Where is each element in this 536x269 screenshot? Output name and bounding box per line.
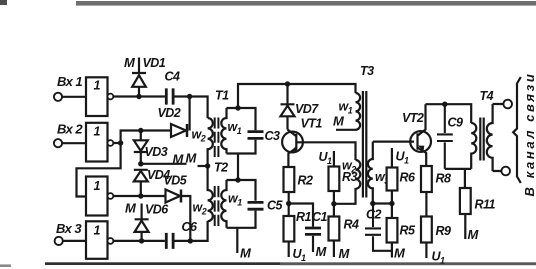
svg-text:Вх 3: Вх 3 (56, 221, 82, 236)
wire Вх3 to gate DD4 (63, 240, 86, 242)
wire M stub from VD3/VD4 node (141, 163, 187, 165)
svg-text:Вх 1: Вх 1 (57, 74, 82, 89)
wire VD5 to C6 node (182, 196, 191, 241)
core T4 (480, 118, 483, 161)
resistor R11 (460, 188, 471, 214)
wire T2 tank bottom rail (227, 211, 256, 228)
gate DD2 (1) (86, 123, 108, 162)
transformer T3 winding w1 (336, 93, 360, 130)
wire M stub at T2 w2 top (198, 165, 208, 167)
wire main top rail (238, 84, 356, 108)
wire T1 tank bottom rail (227, 140, 256, 154)
svg-text:R4: R4 (344, 218, 359, 232)
svg-text:С1: С1 (312, 210, 327, 224)
svg-text:VD3: VD3 (145, 145, 168, 159)
core T2 (215, 186, 219, 226)
gate DD1 output bubble (108, 94, 114, 100)
transistor VT1 (282, 132, 303, 153)
svg-text:Вх 2: Вх 2 (57, 122, 83, 137)
wire w3 top to VT2 base (373, 141, 414, 143)
wire DD2 output to DD3 input (feedback loop) (77, 143, 121, 197)
svg-text:М: М (316, 244, 328, 259)
resistor R3 (329, 167, 340, 192)
resistor R9 (421, 217, 432, 243)
wire R11 to M (464, 214, 466, 239)
diode VD6 (135, 204, 149, 241)
svg-text:М: М (333, 114, 345, 129)
node VD3/VD4 (M) (138, 161, 143, 166)
svg-text:С6: С6 (182, 220, 198, 234)
wire R5 to M (391, 243, 393, 258)
node VD7 top (285, 81, 290, 86)
svg-text:В канал связи: В канал связи (522, 72, 536, 197)
capacitor C9 (437, 104, 453, 169)
scan artifact: bottom-left gray dash (0, 264, 11, 267)
svg-text:R9: R9 (436, 224, 451, 238)
node DD2 out (118, 140, 123, 145)
input terminal Вх1 (54, 93, 62, 101)
wire U1 stub to R3 (333, 151, 335, 167)
node VD3 top (138, 128, 143, 133)
wire VD2 branch riser (189, 97, 191, 131)
wire T4 secondary to output terminals (493, 104, 504, 171)
svg-text:С3: С3 (265, 129, 280, 143)
wire tank1 to tank2 (237, 154, 239, 181)
transformer T4 primary (471, 123, 476, 169)
wire DD3 out to VD5 (113, 195, 165, 197)
capacitor C5 (248, 202, 264, 209)
wire C6 to T2 w2 bottom (175, 221, 208, 241)
svg-text:VD7: VD7 (295, 102, 319, 116)
wire VT2 emitter chain (425, 192, 427, 217)
scan artifact: top rule bar (76, 1, 536, 6)
svg-text:1: 1 (94, 125, 101, 139)
svg-text:VD2: VD2 (158, 106, 181, 120)
wire Вх1 to gate DD1 (62, 96, 86, 98)
svg-text:С5: С5 (267, 199, 283, 213)
gate DD1 (1) (86, 77, 108, 116)
svg-text:М: М (240, 246, 252, 261)
svg-text:R3: R3 (342, 170, 357, 184)
capacitor C3 (248, 132, 264, 139)
gate DD4 (1) (86, 221, 108, 258)
node C9 top (442, 102, 447, 107)
wire node to C1 (289, 204, 313, 227)
node VD1 anode (136, 94, 141, 99)
diode VD5 (180, 190, 183, 203)
diode VD3 (134, 131, 148, 164)
diode VD7 (281, 84, 295, 130)
wire row2 to VD2 (121, 131, 171, 144)
capacitor C4 (166, 88, 173, 104)
node R6/R5/C2 (389, 201, 394, 206)
gate DD3 (1) (86, 177, 108, 216)
svg-text:М: М (468, 227, 480, 242)
wire Вх2 to gate DD2 (62, 142, 86, 144)
svg-text:С2: С2 (366, 208, 381, 222)
svg-text:1: 1 (94, 223, 101, 237)
svg-text:М: М (339, 246, 351, 261)
brace (channel) (513, 77, 521, 183)
core T3 (363, 91, 366, 198)
node after C6 (188, 238, 193, 243)
svg-text:R11: R11 (475, 198, 496, 212)
input terminal Вх2 (54, 139, 62, 147)
node emitter divider (286, 201, 291, 206)
wire T2 tank top rail (227, 180, 256, 201)
node after C4 (187, 94, 192, 99)
wire node to T3 w2 bottom (334, 188, 356, 204)
svg-text:С9: С9 (448, 116, 463, 130)
transformer T2 winding w2 (208, 166, 213, 221)
svg-text:1: 1 (94, 79, 101, 93)
wire U1 stub to R6 (391, 148, 393, 168)
diode VD4 (134, 170, 148, 196)
svg-text:R8: R8 (436, 172, 451, 186)
capacitor C6 (166, 233, 173, 249)
wire R4 to M (333, 241, 335, 258)
resistor R2 (284, 167, 295, 192)
wire drop to R11 (464, 169, 466, 188)
transformer T4 secondary (487, 104, 493, 171)
resistor R5 (387, 218, 398, 243)
wire R3 to node (333, 191, 335, 217)
wire row1: DD1 out to C4 (113, 95, 165, 97)
svg-text:Т4: Т4 (480, 89, 494, 103)
resistor R4 (329, 217, 340, 241)
transformer T2 winding w1 (221, 180, 226, 228)
node tank1 riser (235, 105, 240, 110)
svg-text:R6: R6 (400, 171, 416, 185)
wire R6 to node (391, 191, 393, 219)
capacitor C2 (365, 204, 392, 251)
svg-text:R1: R1 (296, 210, 311, 224)
node w3 bottom (370, 201, 375, 206)
node VD4 bottom (138, 193, 143, 198)
svg-text:М: М (173, 152, 185, 167)
transformer T3 winding w2 (356, 160, 361, 189)
node tank2 top (235, 177, 240, 182)
wire R9 to U1 (425, 243, 427, 259)
input terminal Вх3 (55, 237, 63, 245)
wire R2 to node (288, 192, 290, 216)
node R3/R4/w2 (331, 201, 336, 206)
svg-text:R5: R5 (400, 224, 416, 238)
svg-text:VT2: VT2 (402, 111, 424, 125)
svg-text:М: М (125, 201, 137, 216)
svg-text:Т1: Т1 (215, 89, 229, 103)
wire T2 tank M drop (236, 228, 238, 253)
diode VD1 (132, 58, 146, 97)
svg-text:С4: С4 (165, 70, 180, 84)
svg-text:VD1: VD1 (143, 56, 166, 70)
svg-text:R2: R2 (298, 174, 313, 188)
node T2 w2 top (M) (205, 163, 210, 168)
svg-text:VT1: VT1 (301, 117, 323, 131)
svg-text:М: М (186, 151, 198, 166)
wire T1 tank top rail (227, 108, 256, 130)
capacitor C1 (305, 228, 321, 234)
wire C1 to M (312, 236, 314, 252)
svg-text:1: 1 (94, 179, 101, 193)
svg-text:М: М (394, 246, 406, 261)
wire C4 to T1 w2 top (175, 97, 208, 119)
core T1 (215, 118, 219, 158)
transistor VT2 (410, 131, 431, 152)
svg-text:Т3: Т3 (360, 64, 374, 78)
wire w3 bottom to R6 bottom (373, 202, 392, 204)
gate DD2 output bubble (108, 140, 114, 146)
svg-text:VD6: VD6 (145, 203, 169, 217)
output terminal bottom (501, 167, 510, 176)
wire R1 to U1 (288, 242, 290, 258)
transformer T1 winding w2 (208, 118, 213, 166)
resistor R8 (421, 166, 432, 192)
output terminal top (503, 100, 512, 109)
gate DD4 output bubble (108, 238, 114, 244)
transformer T1 winding w1 (221, 108, 226, 154)
wire VT1 base to T3 w2 (303, 142, 356, 160)
transformer T3 winding w3 (368, 142, 373, 204)
resistor R6 (387, 168, 398, 191)
scan artifact: bottom rule (45, 262, 280, 265)
diode VD2 (186, 124, 189, 137)
svg-text:VD5: VD5 (164, 174, 188, 188)
node VD6 bottom (139, 238, 144, 243)
wire C9 bottom to T4 primary bottom (445, 168, 471, 170)
svg-text:М: М (124, 55, 136, 70)
svg-text:Т2: Т2 (214, 161, 228, 175)
wire collector rail VT2 to T4 (426, 104, 472, 123)
resistor R1 (284, 216, 295, 242)
gate DD3 output bubble (108, 193, 114, 199)
scan artifact: top-left dark tab (0, 0, 7, 5)
wire row3: DD4 out to C6 (113, 240, 165, 242)
